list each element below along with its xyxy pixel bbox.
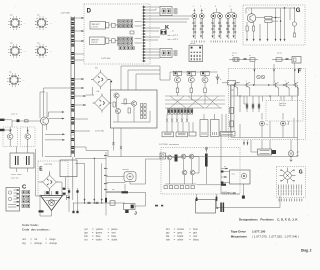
contact pairs row mid-bottom — [166, 114, 188, 122]
svg-text:rot: rot — [34, 238, 37, 241]
svg-text:xxxx xxx: xxxx xxx — [123, 169, 129, 171]
terminal square array in C — [22, 191, 30, 208]
svg-text:K: K — [165, 25, 169, 31]
head H3 box — [189, 132, 196, 136]
F resistor drops — [246, 96, 260, 112]
transistor T4 — [218, 14, 223, 39]
svg-text:xxx: xxx — [37, 43, 40, 45]
label boxes above trio transistors — [173, 71, 209, 75]
relay block RL1 (pin grid) — [189, 43, 203, 62]
K outputs with arrows — [221, 166, 236, 194]
transistor T11 in F — [273, 81, 278, 90]
transformer box T-E — [60, 160, 77, 187]
wire strip mid feeds with arrows — [74, 78, 90, 131]
sensor box S10 — [221, 170, 250, 199]
transistor T16 in K — [167, 155, 172, 160]
svg-text:1.077.91: 1.077.91 — [92, 26, 98, 28]
wire control box risers to right — [121, 66, 160, 90]
oscillator box in K — [160, 153, 166, 159]
resistor row under mesh — [168, 109, 193, 115]
lamp La1 in F — [260, 121, 268, 126]
legend column 1 — [22, 238, 58, 245]
svg-text:1.077.92: 1.077.92 — [91, 42, 97, 44]
resistor R73 vertical in G — [246, 26, 248, 31]
svg-text:Gl1: Gl1 — [95, 68, 98, 70]
F left components — [230, 107, 234, 127]
svg-text:T: T — [246, 81, 247, 83]
svg-text:4: 4 — [230, 6, 231, 8]
G top rail — [246, 8, 295, 24]
svg-text:3: 3 — [215, 6, 216, 8]
svg-text:T: T — [234, 81, 235, 83]
svg-text:4.7xx: 4.7xx — [71, 135, 75, 137]
wire column left of E box — [36, 149, 41, 196]
transistor T13 (mid trio) — [188, 72, 194, 93]
capacitor C31 in K — [205, 154, 208, 167]
connector S1 (rotary wafer) — [8, 16, 25, 29]
transistor T23 in K — [190, 170, 195, 175]
svg-text:wht: wht — [166, 238, 170, 241]
svg-text:Diag. 2: Diag. 2 — [301, 249, 312, 253]
title mechanism line — [231, 235, 299, 239]
wire D internal row2 — [109, 39, 142, 44]
svg-text:⊤ xx: ⊤ xx — [170, 30, 174, 33]
transistor T9 in F — [233, 81, 238, 90]
svg-text:rouge: rouge — [49, 238, 56, 241]
wire bundle D to K components — [145, 7, 191, 58]
driver array bottom tick row — [192, 41, 237, 43]
amplifier triangle A1 with motor symbol — [41, 191, 63, 216]
svg-text:1.077.100: 1.077.100 — [252, 229, 266, 233]
svg-text:—: — — [23, 80, 25, 82]
connector S4 (rotary wafer) — [35, 44, 52, 57]
svg-text:red: red — [22, 238, 26, 241]
connector column P-D pins — [142, 6, 146, 63]
capacitor pair box left — [10, 147, 34, 173]
svg-text:J: J — [134, 211, 137, 216]
transistor T6 — [232, 14, 237, 39]
svg-text:1.xx: 1.xx — [71, 140, 74, 142]
svg-text:—: — — [50, 51, 52, 53]
return rail stub — [74, 147, 86, 151]
svg-text:violet: violet — [96, 238, 102, 241]
supply rail (long) — [86, 138, 298, 157]
record-playback inner box (dashed) in F — [266, 101, 303, 122]
resistor array RN1 — [118, 20, 133, 28]
transistor T12 in F — [284, 81, 289, 90]
jack symbol under K — [161, 30, 167, 35]
resistor R71 in G — [265, 16, 272, 19]
capstan box right — [220, 132, 235, 137]
edge connector strip P1 (board interconnect) — [61, 13, 85, 158]
svg-text:Gl2: Gl2 — [97, 91, 100, 93]
tall pickup boxes mid-bottom — [200, 114, 219, 137]
transistor T17 in K — [181, 154, 186, 159]
dark component on K bottom rail — [197, 184, 227, 186]
svg-text:org: org — [22, 242, 26, 245]
legend column 2 — [84, 228, 118, 242]
switch module box K3 — [160, 7, 178, 16]
edge terminal stubs left — [0, 119, 12, 132]
svg-text:La: La — [287, 124, 289, 126]
svg-text:G: G — [299, 169, 303, 175]
svg-text:xxx: xxx — [112, 189, 115, 191]
bridge rectifier Gl1 — [91, 68, 110, 90]
ground arrows in G bottom — [246, 39, 285, 42]
diode and wire columns right of triangle — [66, 188, 78, 213]
svg-text:white: white — [177, 238, 183, 241]
svg-text:xxx: xxx — [10, 15, 13, 17]
photo lamp with radiating arrows in G2 — [280, 168, 296, 184]
misc parts in control box — [113, 98, 150, 122]
relay module K1 in D — [90, 22, 115, 30]
wire mid rail to trio — [160, 66, 218, 80]
edge contact bars bottom right — [220, 203, 224, 213]
junction dot at Gl1 output — [110, 81, 112, 83]
switch module box K4 — [160, 49, 178, 58]
svg-text:T: T — [285, 81, 286, 83]
svg-text:xxx: xxx — [9, 72, 12, 74]
snubber network N1 — [229, 55, 258, 61]
choke component on mid wire — [106, 189, 146, 193]
module box F (dashed) — [229, 69, 306, 140]
module box G2 (dashed) — [277, 167, 306, 198]
svg-text:Tape Drive: Tape Drive — [231, 229, 246, 233]
transistor T2 — [199, 14, 204, 39]
svg-text:T: T — [248, 10, 249, 12]
transistor T5 — [226, 14, 231, 39]
transistor T29 node cluster — [41, 117, 49, 125]
wire mesh to head boxes — [167, 114, 226, 132]
transistor T1 — [192, 14, 197, 39]
measurement labels right of K — [168, 30, 179, 41]
svg-text:xx xx xxx: xx xx xxx — [11, 177, 18, 179]
wires left of triangle — [40, 196, 52, 217]
svg-text:violet: violet — [111, 238, 117, 241]
pin dash row under G2 — [279, 199, 302, 202]
diode D20 in K — [205, 147, 208, 153]
plug P10 — [251, 148, 276, 155]
bottom component row (caps) — [73, 201, 125, 205]
capacitor C30 electrolytic in K — [175, 155, 178, 162]
wire strip to box D feeds — [74, 30, 84, 60]
svg-text:T: T — [274, 81, 275, 83]
svg-text:orange: orange — [34, 242, 42, 245]
svg-text:La: La — [266, 124, 268, 126]
svg-text:—: — — [50, 23, 52, 25]
contact blob left of triangle apex — [39, 210, 44, 212]
title tape drive line — [231, 229, 266, 233]
transistor T13 in F — [293, 81, 298, 90]
F extra verticals and dots — [231, 84, 294, 137]
svg-text:G: G — [296, 8, 301, 14]
transistor T21 in control box — [115, 108, 120, 113]
coupling part between D rows — [130, 31, 134, 34]
pin dashes in C body — [17, 189, 19, 206]
bridge rectifier Gl2 — [93, 91, 112, 113]
svg-text:blanc: blanc — [193, 238, 200, 241]
rails from strip bottom — [75, 158, 106, 204]
transistor T7 in G — [247, 10, 256, 22]
component row at K bottom — [164, 186, 194, 189]
svg-text:1.077.210: 1.077.210 — [44, 164, 52, 166]
module box K (dashed) — [161, 148, 240, 195]
svg-text:xxx xxx: xxx xxx — [190, 43, 195, 45]
labels above rotary connectors — [9, 15, 40, 74]
resistor array RN3 — [119, 47, 134, 50]
cell box T31 (dashed) — [3, 127, 18, 147]
transistor T8 in G — [292, 7, 296, 37]
transistor T12 (mid trio) — [175, 72, 181, 93]
resistor array in control box — [141, 104, 147, 119]
svg-text:orange: orange — [49, 242, 57, 245]
F bottom rail — [231, 124, 298, 138]
pin row in G2 — [278, 185, 302, 196]
module box J with label — [124, 192, 164, 215]
wire strip lower tail — [72, 157, 74, 200]
svg-text:xxx xx: xxx xx — [232, 53, 237, 55]
svg-text:xxx: xxx — [10, 43, 13, 45]
indicator lamp La3 — [288, 151, 299, 162]
lamp La2 in F — [281, 121, 289, 126]
transistor T3 — [211, 14, 216, 39]
legend column 3 — [166, 228, 200, 242]
motor M1 (flutter filter) — [123, 169, 137, 181]
resistor R74 vertical in G — [253, 26, 255, 31]
wires in G — [247, 7, 285, 38]
wire D internal row1 — [109, 22, 142, 27]
svg-text:Designations Positions C,: Designations Positions C, D, F, G, J, K — [239, 218, 298, 222]
svg-text:1.077.xxx: 1.077.xxx — [222, 192, 230, 194]
wire drops to capstan box — [231, 85, 235, 132]
F mid rail — [231, 85, 298, 138]
transistor T22 in control box — [131, 101, 136, 106]
connector body in C — [6, 188, 20, 212]
svg-text:xx: xx — [249, 55, 251, 57]
svg-text:xxx xx: xxx xx — [277, 53, 282, 55]
svg-text:( 1.077.070, 1.077.525, 1.07: ( 1.077.070, 1.077.525, 1.077.040 ) — [252, 235, 299, 239]
wires T29 to strip arrows — [45, 133, 75, 156]
label bracket bottom mid — [222, 192, 240, 194]
head H2 box — [176, 132, 188, 137]
label under capacitor box — [11, 174, 21, 179]
svg-text:2: 2 — [200, 6, 201, 8]
control board box — [111, 90, 158, 128]
svg-text:1.077.500: 1.077.500 — [101, 58, 111, 60]
driver array top stubs — [193, 6, 235, 14]
svg-text:Play / Rec: Play / Rec — [279, 105, 286, 107]
wires around motor M1 — [104, 152, 161, 216]
wires in E — [38, 171, 62, 196]
wire bridges to control box — [86, 80, 111, 104]
svg-text:F: F — [298, 69, 302, 75]
svg-text:xxx: xxx — [37, 15, 40, 17]
svg-text:1.077.305: 1.077.305 — [61, 13, 71, 15]
svg-text:1: 1 — [193, 6, 194, 8]
K right-edge vertical — [220, 132, 222, 194]
resistor array RN2 — [118, 37, 133, 45]
transistor T14 (mid trio) — [202, 72, 208, 93]
svg-text:= 0,35 V: = 0,35 V — [172, 39, 179, 41]
bridge rectifier BR3 in E — [41, 173, 59, 191]
svg-text:xx xx: xx xx — [232, 174, 236, 176]
module box E (dashed) — [38, 161, 68, 196]
svg-text:+ xx: + xx — [296, 152, 299, 154]
connector S5 (rotary wafer) — [7, 73, 24, 86]
cell box T32 (dashed) — [21, 127, 36, 147]
junction cluster box right of J — [196, 194, 281, 213]
resistor R72 in G — [265, 20, 272, 23]
contact blobs under E — [46, 188, 65, 195]
svg-text:—: — — [24, 23, 26, 25]
svg-text:xx xx xx: xx xx xx — [11, 114, 18, 116]
neon lamp pair in F top — [257, 75, 265, 79]
svg-text:Mécanisme: Mécanisme — [231, 235, 248, 239]
crossover wire mesh (mid) — [165, 93, 225, 108]
transistor T20 in control box — [114, 93, 119, 98]
svg-text:= 0,77 V: = 0,77 V — [172, 35, 179, 37]
svg-text:xx: xx — [232, 55, 234, 57]
diode D15 mid — [216, 74, 222, 84]
svg-text:D: D — [87, 8, 92, 14]
legend color code title — [22, 223, 50, 231]
transistor T10 in F — [245, 81, 250, 90]
control box bottom drops with contacts — [112, 128, 122, 157]
F inner verticals — [240, 96, 292, 124]
labels above snubbers — [232, 53, 282, 55]
wires above cells with up arrows — [9, 127, 28, 131]
K internal wires — [165, 156, 206, 184]
module box D (dashed) — [84, 4, 150, 64]
wire drops into F with arrows — [254, 62, 296, 73]
svg-text:1.077.300 xxx xxxxxxx: 1.077.300 xxx xxxxxxx — [159, 144, 179, 146]
F gate rail — [231, 73, 298, 85]
svg-text:xxx: xxx — [296, 155, 299, 157]
relay module K2 in D — [90, 37, 116, 45]
delay box mid — [222, 81, 240, 86]
head H1 box — [162, 132, 174, 137]
svg-text:T: T — [294, 81, 295, 83]
snubber network N2 — [272, 57, 301, 64]
svg-text:—: — — [24, 51, 26, 53]
transistor T18 in K — [189, 154, 194, 159]
connector S3 (rotary wafer) — [8, 44, 25, 57]
svg-text:Code des couleurs :: Code des couleurs : — [22, 227, 50, 231]
svg-text:xx xxx xxxxx: xx xxx xxxxx — [11, 174, 21, 176]
wire drops below F to plugs — [243, 140, 291, 151]
module box G (dashed) — [243, 5, 305, 45]
transistor T19 in K — [182, 170, 187, 175]
wires of T29 cluster — [11, 88, 74, 157]
connector S2 (rotary wafer) — [35, 16, 52, 29]
svg-text:1.077.310: 1.077.310 — [95, 131, 105, 133]
svg-text:xx: xx — [224, 166, 226, 168]
